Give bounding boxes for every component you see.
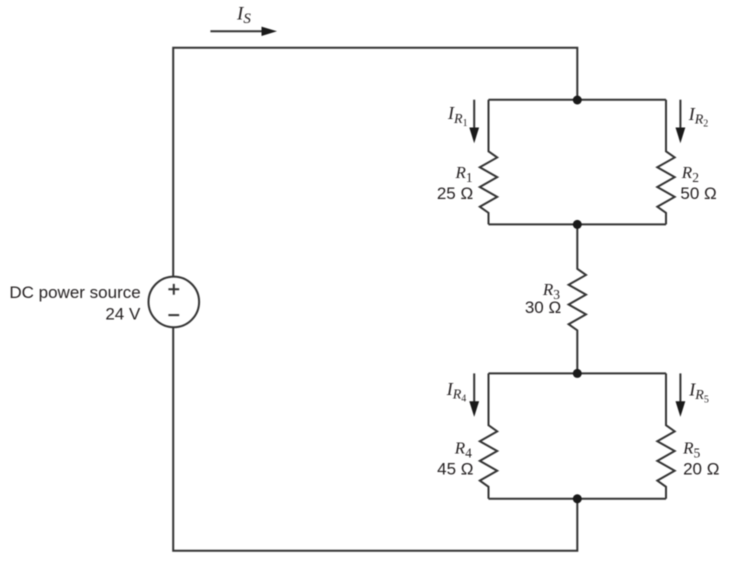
svg-text:24 V: 24 V — [105, 305, 141, 324]
svg-text:20 Ω: 20 Ω — [683, 459, 719, 478]
svg-text:25 Ω: 25 Ω — [437, 184, 473, 203]
svg-text:DC power source: DC power source — [9, 283, 140, 302]
svg-text:45 Ω: 45 Ω — [437, 459, 473, 478]
svg-text:50 Ω: 50 Ω — [680, 184, 716, 203]
